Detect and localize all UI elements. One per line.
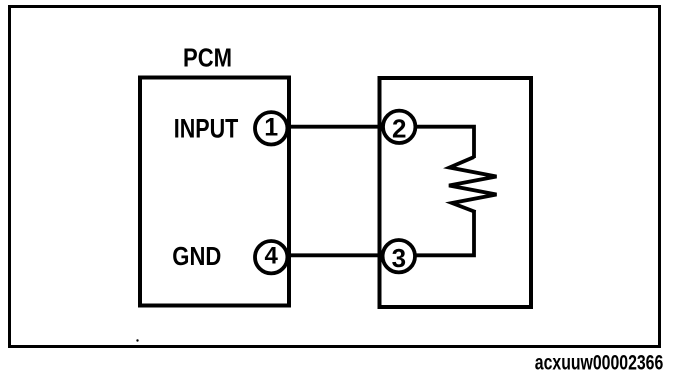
sensor box — [380, 78, 532, 307]
svg-text:3: 3 — [392, 243, 406, 273]
pin 1 — [255, 112, 287, 144]
wire pin4 to pin3 — [271, 253, 399, 257]
svg-text:1: 1 — [264, 113, 278, 141]
wire resistor bottom to pin3 — [399, 210, 474, 255]
pin 4 — [255, 241, 287, 273]
svg-text:4: 4 — [265, 242, 279, 269]
svg-text:GND: GND — [172, 241, 221, 271]
pin 3 — [383, 240, 415, 273]
svg-text:INPUT: INPUT — [174, 114, 239, 144]
PCM module box — [140, 78, 289, 306]
svg-text:acxuuw00002366: acxuuw00002366 — [535, 350, 664, 374]
pin 2 — [383, 111, 415, 144]
wire pin1 to pin2 — [271, 125, 399, 129]
wire pin2 to resistor top — [399, 127, 474, 158]
svg-text:2: 2 — [392, 113, 406, 143]
resistor — [449, 157, 497, 212]
svg-text:PCM: PCM — [183, 44, 232, 72]
